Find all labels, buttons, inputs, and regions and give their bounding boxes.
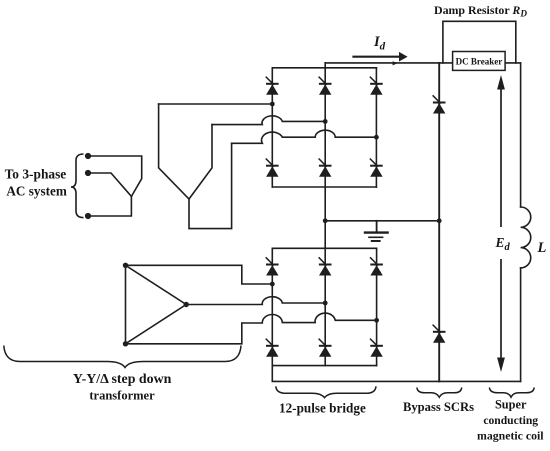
wire: AC phase B terminal to Y1 bbox=[88, 173, 131, 196]
svg-text:Bypass SCRs: Bypass SCRs bbox=[403, 400, 474, 414]
transformer Y2 winding body bbox=[159, 104, 212, 199]
thyristor lower bridge lower col3 bbox=[370, 339, 383, 357]
thyristor top bridge upper col1 bbox=[266, 77, 279, 95]
wire: lower bridge column 2 bbox=[324, 248, 326, 365]
wire: lower bridge column 3 bbox=[376, 248, 378, 365]
thyristor lower bridge upper col3 bbox=[370, 257, 383, 275]
wire: Y2 phase C to bridge column 3 (hops over col1,col2) bbox=[232, 130, 377, 143]
wire: DC positive bus top rail to DC breaker bbox=[325, 62, 452, 64]
wire: delta phase 1 to lower bridge column 1 bbox=[126, 265, 273, 284]
thyristor lower bridge upper col1 bbox=[266, 257, 279, 275]
wire: right vertical to coil bbox=[520, 63, 522, 207]
thyristor top bridge lower col3 bbox=[370, 159, 383, 177]
svg-text:conducting: conducting bbox=[483, 414, 538, 427]
node: lower bridge col3 AC tap bbox=[374, 318, 379, 323]
node: top bridge col2 AC tap bbox=[323, 119, 328, 124]
svg-text:DC Breaker: DC Breaker bbox=[456, 57, 503, 67]
wire: top bridge bottom rail bbox=[272, 186, 376, 188]
node: delta vertex top-left bbox=[123, 263, 128, 268]
DC breaker U1 box bbox=[453, 52, 506, 71]
svg-text:Ed: Ed bbox=[495, 235, 511, 253]
node: midpoint at bypass line bbox=[437, 218, 442, 223]
wire: lower bridge bottom rail bbox=[272, 365, 376, 367]
wire: top bridge column 1 bbox=[271, 68, 273, 187]
wire: midpoint rail between bridges bbox=[325, 220, 439, 222]
wire: delta phase 2 to lower bridge column 2 (hop over col1) bbox=[186, 297, 325, 305]
inductor L coil bbox=[521, 207, 531, 268]
svg-text:Id: Id bbox=[373, 34, 386, 53]
wire: top bridge column 3 bbox=[375, 68, 377, 187]
svg-text:Damp Resistor RD: Damp Resistor RD bbox=[434, 3, 527, 19]
brace for AC system bbox=[71, 154, 84, 218]
wire: Y2 phase A to bridge column 1 bbox=[159, 103, 273, 105]
svg-text:Super: Super bbox=[495, 398, 527, 412]
thyristor lower bridge upper col2 bbox=[319, 257, 332, 275]
small current tick on wire bbox=[393, 61, 398, 65]
thyristor top bridge lower col1 bbox=[266, 159, 279, 177]
node: midpoint at col2 bbox=[323, 218, 328, 223]
wire: delta phase 3 to lower bridge column 3 (hops over col1,col2) bbox=[126, 313, 377, 344]
wire: Y2 phase C routing down-right-up bbox=[189, 143, 232, 228]
brace for transformer bbox=[4, 346, 241, 368]
wire: damp resistor loop bbox=[443, 21, 516, 63]
wire: top bridge top rail bbox=[272, 67, 376, 69]
wire: Y2 phase B to bridge column 2 (hop over col1) bbox=[212, 116, 325, 125]
node: delta vertex right bbox=[184, 302, 189, 307]
svg-text:magnetic coil: magnetic coil bbox=[477, 429, 544, 443]
wire: bypass SCR string vertical bbox=[438, 63, 440, 382]
thyristor top bridge lower col2 bbox=[319, 159, 332, 177]
arrow Id current bbox=[352, 52, 407, 62]
brace for 12-pulse bridge bbox=[276, 386, 376, 397]
wire: DC breaker to right corner bbox=[505, 62, 520, 64]
svg-text:12-pulse bridge: 12-pulse bridge bbox=[279, 400, 366, 415]
node: top bridge col1 AC tap bbox=[270, 102, 275, 107]
svg-text:L: L bbox=[537, 240, 547, 256]
arrow Ed voltage (double headed, gap for label) bbox=[500, 86, 502, 360]
node: AC terminal B bbox=[85, 170, 91, 176]
brace for bypass SCRs bbox=[417, 388, 462, 398]
svg-text:AC system: AC system bbox=[6, 184, 66, 199]
svg-text:Y-Y/Δ step down: Y-Y/Δ step down bbox=[73, 372, 172, 387]
thyristor lower bridge lower col1 bbox=[266, 339, 279, 357]
wire: lower bridge top rail bbox=[272, 247, 376, 249]
brace for superconducting coil bbox=[489, 388, 534, 398]
wire: lower bridge column 1 bbox=[271, 248, 273, 365]
thyristor top bridge upper col3 bbox=[370, 77, 383, 95]
wire: top bridge column 2 riser and through column bbox=[324, 63, 326, 248]
thyristor bypass SCR upper bbox=[433, 95, 446, 113]
node: top bridge col3 AC tap bbox=[374, 135, 379, 140]
thyristor lower bridge lower col2 bbox=[319, 339, 332, 357]
wire: AC phase A terminal to Y1 bbox=[88, 156, 142, 196]
node: AC terminal A bbox=[85, 153, 91, 159]
node: lower bridge col2 AC tap bbox=[323, 301, 328, 306]
node: lower bridge col1 AC tap bbox=[270, 282, 275, 287]
node: delta vertex bottom-left bbox=[123, 341, 128, 346]
wire: DC negative bus (bottom) bbox=[272, 366, 520, 382]
svg-text:To 3-phase: To 3-phase bbox=[5, 167, 67, 182]
ground bbox=[365, 221, 388, 241]
thyristor top bridge upper col2 bbox=[319, 77, 332, 95]
wire: AC phase C terminal to Y1 bbox=[88, 196, 131, 216]
svg-text:transformer: transformer bbox=[89, 389, 155, 403]
thyristor bypass SCR lower bbox=[433, 325, 446, 343]
wire: below coil to bottom bus bbox=[520, 268, 522, 382]
transformer delta winding body bbox=[126, 265, 187, 344]
node: AC terminal C bbox=[85, 213, 91, 219]
